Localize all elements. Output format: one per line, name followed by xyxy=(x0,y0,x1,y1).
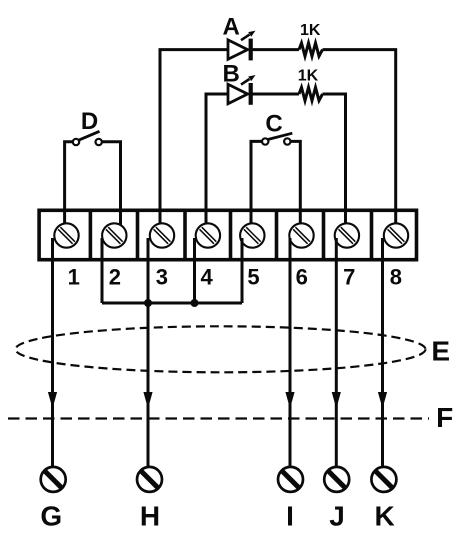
svg-text:C: C xyxy=(265,110,282,137)
svg-text:G: G xyxy=(40,500,62,531)
svg-text:4: 4 xyxy=(200,264,213,289)
svg-text:H: H xyxy=(140,500,160,531)
svg-text:1K: 1K xyxy=(298,68,319,85)
svg-text:A: A xyxy=(223,13,240,40)
svg-text:J: J xyxy=(329,500,345,531)
svg-text:2: 2 xyxy=(109,264,121,289)
svg-text:1K: 1K xyxy=(300,22,321,39)
svg-text:B: B xyxy=(223,60,240,87)
svg-text:7: 7 xyxy=(343,264,355,289)
svg-text:6: 6 xyxy=(296,264,308,289)
svg-text:8: 8 xyxy=(390,264,402,289)
svg-text:K: K xyxy=(374,500,394,531)
svg-text:1: 1 xyxy=(68,264,80,289)
svg-text:5: 5 xyxy=(247,264,259,289)
svg-text:F: F xyxy=(436,402,453,433)
svg-text:3: 3 xyxy=(156,264,168,289)
svg-text:E: E xyxy=(431,336,450,367)
svg-text:I: I xyxy=(286,500,294,531)
svg-text:D: D xyxy=(81,108,98,135)
